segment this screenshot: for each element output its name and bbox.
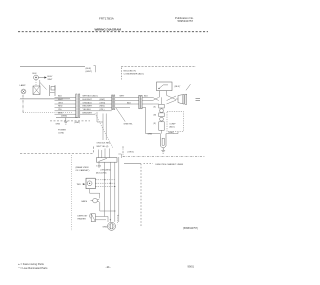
freezer lamp bulb xyxy=(34,75,39,80)
timer bottom wire xyxy=(90,189,100,199)
wire to compressor w2 xyxy=(142,100,152,102)
svg-text:BLK: BLK xyxy=(33,73,38,75)
wire crossing X2 xyxy=(167,95,179,104)
svg-text:DEFROST: DEFROST xyxy=(78,215,89,217)
svg-text:HEATER: HEATER xyxy=(78,217,87,220)
svg-text:BRN/WHT: BRN/WHT xyxy=(83,113,93,115)
interior lamp xyxy=(21,89,26,94)
ground symbol power cord xyxy=(64,118,68,125)
wire harness left w6 xyxy=(55,113,76,115)
fan bottom wire xyxy=(100,202,115,211)
svg-text:ORG/BLK: ORG/BLK xyxy=(83,102,93,104)
svg-text:POWER: POWER xyxy=(58,130,66,132)
svg-text:GRN: GRN xyxy=(56,124,61,126)
timer motor xyxy=(87,181,92,186)
svg-text:GRN: GRN xyxy=(103,227,108,229)
svg-text:(GRN): (GRN) xyxy=(61,116,67,118)
wire top cabinet line xyxy=(20,66,85,68)
wire diagonal drop xyxy=(116,108,125,122)
wire dashed drop from bulb xyxy=(35,80,37,86)
liner dotted left edge central xyxy=(71,155,73,231)
svg-text:(BLK): (BLK) xyxy=(169,126,175,128)
svg-text:(M): (M) xyxy=(154,115,157,117)
connector J2 bars xyxy=(112,95,113,110)
svg-text:ORG BLK RED: ORG BLK RED xyxy=(97,143,111,145)
cold control pin wires xyxy=(159,91,161,98)
wire run w2 xyxy=(115,100,139,102)
cold control box xyxy=(157,82,173,91)
svg-text:(S): (S) xyxy=(154,107,157,109)
wire harness left w1 xyxy=(55,97,76,114)
motor bracket xyxy=(118,215,120,224)
svg-text:BLK/WHT: BLK/WHT xyxy=(83,99,93,101)
liner dashed bottom left xyxy=(20,153,94,155)
thermostat bracket xyxy=(118,154,121,158)
wire L corner below connector xyxy=(97,112,103,122)
cold control contacts xyxy=(159,85,168,89)
svg-text:WHT/BLK (BLK): WHT/BLK (BLK) xyxy=(83,96,98,98)
svg-text:WHT YEL (4): WHT YEL (4) xyxy=(97,146,109,148)
wire harness right w2 xyxy=(80,100,112,102)
terminal marks xyxy=(196,97,201,99)
defrost timer box xyxy=(86,178,95,189)
svg-text:(5995344757): (5995344757) xyxy=(183,227,198,230)
svg-text:FAN M: FAN M xyxy=(82,200,88,203)
wire harness right w6 xyxy=(80,113,95,115)
svg-text:(YEL): (YEL) xyxy=(100,109,105,111)
svg-text:(ORG): (ORG) xyxy=(128,151,134,153)
defrost thermostat body xyxy=(97,158,118,163)
liner dotted diagonal xyxy=(95,114,113,148)
wire harness left w4 xyxy=(55,106,76,108)
liner dash-dot riser xyxy=(122,146,124,156)
svg-text:TMR: TMR xyxy=(77,184,82,186)
wire bus vertical right b xyxy=(118,157,120,222)
liner dash-dot boundary xyxy=(123,156,205,158)
svg-text:RED: RED xyxy=(58,106,63,108)
wire run w4 xyxy=(115,106,130,108)
svg-text:CONDENSER (BLK): CONDENSER (BLK) xyxy=(124,74,144,76)
wire diag to overload xyxy=(186,84,191,90)
wire bulb to switch xyxy=(39,80,41,86)
stack wire xyxy=(161,97,163,104)
svg-text:(ORG)(RED): (ORG)(RED) xyxy=(101,169,112,171)
wire crossing X1 xyxy=(153,97,159,104)
wire harness right w4 xyxy=(80,106,112,108)
legend sample line xyxy=(124,163,141,165)
svg-text:(WHT): (WHT) xyxy=(86,71,93,73)
svg-text:(BLK): (BLK) xyxy=(86,68,92,70)
svg-text:WHT: WHT xyxy=(48,79,54,81)
svg-text:WHT: WHT xyxy=(58,99,63,101)
liner dashed vertical xyxy=(140,164,142,227)
svg-text:99/01: 99/01 xyxy=(188,264,195,268)
ground symbol xyxy=(161,148,165,153)
wire down to defrost heater xyxy=(146,107,161,137)
header dashed rule xyxy=(18,31,208,33)
connector J1 bars xyxy=(76,94,77,118)
wire to compressor w3 xyxy=(142,103,152,105)
svg-text:(BLK) (ORG): (BLK) (ORG) xyxy=(96,173,107,175)
svg-text:BLK: BLK xyxy=(144,96,149,98)
motor top tie xyxy=(114,211,116,222)
legend sample dashes xyxy=(144,163,154,165)
wire run to cold control w1 xyxy=(115,97,139,107)
svg-text:RED/WHT: RED/WHT xyxy=(83,106,93,108)
power cord dashed lead xyxy=(50,120,90,122)
wire harness left w2 xyxy=(55,100,76,102)
wire harness right w5 xyxy=(80,110,112,112)
svg-text:BLK/: BLK/ xyxy=(48,76,53,78)
svg-text:(R): (R) xyxy=(154,123,157,125)
defrost thermostat pins top xyxy=(98,150,100,158)
wire labels left column xyxy=(58,96,63,115)
defrost heater tube xyxy=(160,134,166,148)
defrost heater element xyxy=(89,213,92,218)
compressor dashed box xyxy=(167,111,183,131)
wire vertical to thermostat b xyxy=(105,114,107,141)
svg-text:GRN: GRN xyxy=(148,134,153,136)
svg-text:1 3 2 4: 1 3 2 4 xyxy=(96,166,101,168)
svg-text:(WHT): (WHT) xyxy=(75,122,81,124)
evap fan motor xyxy=(93,198,98,203)
overload protector xyxy=(178,94,184,104)
fan terminals xyxy=(97,199,99,201)
wire harness left w3 xyxy=(55,103,76,105)
wire diagonal to door switch xyxy=(40,83,47,90)
liner dash-dot left edge xyxy=(22,95,24,113)
svg-text:5995344757: 5995344757 xyxy=(178,19,194,23)
bracket xyxy=(94,66,96,73)
wire harness left w5 xyxy=(55,110,76,112)
condenser fan motor xyxy=(108,222,116,230)
wire to compressor w1 xyxy=(142,97,152,107)
wire run w3 xyxy=(115,103,139,105)
arrow to wire label xyxy=(39,77,45,79)
svg-text:(RED): (RED) xyxy=(100,106,106,108)
door switch xyxy=(49,85,51,96)
svg-text:WIRING DIAGRAM: WIRING DIAGRAM xyxy=(95,28,122,32)
svg-text:* = Low-Illuminated Parts: * = Low-Illuminated Parts xyxy=(19,266,49,270)
freezer liner left dashed edge xyxy=(120,68,122,80)
timer terminal wires xyxy=(95,179,115,181)
wire vertical to thermostat a xyxy=(102,114,104,141)
svg-text:DENOTES CABINET LINER: DENOTES CABINET LINER xyxy=(156,163,184,166)
connector J3 bars xyxy=(139,95,140,109)
svg-text:(WHT): (WHT) xyxy=(100,99,106,101)
svg-text:MOLDED IN: MOLDED IN xyxy=(124,71,137,73)
wire heater right side xyxy=(166,132,178,134)
svg-text:CORD: CORD xyxy=(58,133,65,135)
svg-text:(ORG): (ORG) xyxy=(100,102,106,104)
svg-text:(WHT): (WHT) xyxy=(169,132,175,134)
svg-text:FRT17B3A: FRT17B3A xyxy=(99,16,114,20)
wire harness right w1 xyxy=(80,97,112,114)
svg-text:BLK: BLK xyxy=(58,96,63,98)
liner dotted bottom edge xyxy=(23,112,72,114)
liner dashed corner up xyxy=(93,147,95,154)
svg-text:COMP: COMP xyxy=(169,123,176,125)
svg-text:WHT: WHT xyxy=(120,96,125,98)
svg-text:GRN/YEL: GRN/YEL xyxy=(124,124,134,126)
svg-text:-11-: -11- xyxy=(106,265,111,269)
start relay stack xyxy=(159,104,164,108)
defrost thermostat pins bottom xyxy=(98,162,100,168)
wire bus vertical right a xyxy=(114,162,116,210)
svg-text:▸ = Fast-moving Parts: ▸ = Fast-moving Parts xyxy=(19,262,45,266)
wire harness right w3 xyxy=(80,103,112,105)
wire to heater drop xyxy=(142,106,146,108)
liner sawtooth border xyxy=(20,98,70,99)
heater wires xyxy=(95,217,108,223)
power cord GRN wire xyxy=(56,117,78,119)
wire labels right column xyxy=(83,96,106,115)
svg-text:(REAR VIEW: (REAR VIEW xyxy=(76,166,90,169)
svg-text:BRN: BRN xyxy=(58,113,63,115)
lamp socket box xyxy=(33,86,40,95)
freezer liner wavy border xyxy=(121,65,196,67)
svg-text:YEL/BLK: YEL/BLK xyxy=(83,109,92,111)
svg-text:(BLK)˜: (BLK)˜ xyxy=(175,85,181,88)
svg-text:BLK: BLK xyxy=(127,102,132,104)
svg-text:LAMP: LAMP xyxy=(20,84,26,87)
svg-text:ORG: ORG xyxy=(58,102,63,104)
svg-text:OF CABINET): OF CABINET) xyxy=(76,169,90,172)
